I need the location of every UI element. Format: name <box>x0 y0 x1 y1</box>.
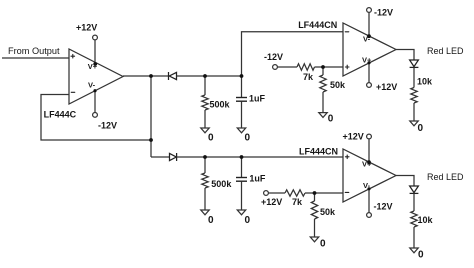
wire R2 to ground <box>204 188 206 210</box>
svg-text:0: 0 <box>208 133 214 144</box>
svg-text:-12V: -12V <box>374 8 393 18</box>
ground under C1 <box>237 128 245 133</box>
svg-text:10k: 10k <box>418 215 434 225</box>
wire top branch to diode D1 <box>151 75 169 77</box>
capacitor C2 plates <box>236 178 247 182</box>
ground under R2 <box>201 210 209 215</box>
terminal +12V circle bottom divider <box>264 191 269 196</box>
terminal +12V circle U2 bottom <box>367 83 372 88</box>
wire R8 to ground <box>413 227 415 248</box>
terminal +12V circle U1 <box>93 35 98 40</box>
svg-text:Red LED: Red LED <box>427 46 464 56</box>
terminal -12V circle U1 <box>93 113 98 118</box>
svg-text:-12V: -12V <box>374 202 393 212</box>
wire bottom branch from bus to diode D2 <box>151 156 170 158</box>
op-amp U1 LF444C triangle <box>69 49 123 104</box>
capacitor C1 1uF top lead <box>241 76 243 97</box>
svg-text:V+: V+ <box>362 160 372 169</box>
resistor R5 10k zigzag <box>411 88 417 104</box>
wire U3 V- to -12V terminal bottom <box>368 189 370 213</box>
resistor R6 7k zigzag <box>285 190 305 196</box>
node U2 V+ pin <box>367 61 370 64</box>
op-amp U3 LF444CN triangle <box>343 149 396 202</box>
resistor R1 500k top lead <box>204 76 206 95</box>
wire R6 to U3 inverting input <box>305 192 343 194</box>
node U2 V- pin <box>367 34 371 38</box>
mark + input U1 <box>71 55 75 57</box>
wire R7 to ground <box>314 219 316 237</box>
node U1 V- pin <box>93 89 96 92</box>
mark + input U2 <box>345 66 349 68</box>
resistor R4 50k top lead <box>322 67 324 75</box>
node U3 V+ pin <box>367 160 371 164</box>
diode D2 pointing right <box>170 153 177 161</box>
node R2 top <box>203 155 207 159</box>
node feedback junction <box>149 138 153 142</box>
resistor R1 500k zigzag <box>202 95 208 110</box>
svg-text:0: 0 <box>245 215 251 226</box>
capacitor C1 bottom lead <box>241 101 243 128</box>
svg-text:0: 0 <box>328 113 334 124</box>
ground under R7 <box>310 237 318 242</box>
diode D1 pointing left <box>169 72 177 80</box>
wire U1 V+ to +12V terminal <box>94 40 96 64</box>
capacitor C1 plates <box>236 98 247 102</box>
resistor R4 50k zigzag <box>320 75 326 92</box>
wire R3 to U2 non-inverting input <box>315 66 344 68</box>
wire LED to R8 <box>413 193 415 211</box>
wire U1 V- to -12V terminal <box>94 91 96 113</box>
wire D1 to cap node <box>177 75 242 77</box>
ground under R4 <box>319 113 327 118</box>
svg-text:50k: 50k <box>330 80 346 90</box>
svg-text:V-: V- <box>88 81 96 90</box>
wire feedback U1 output to inverting input <box>41 95 151 141</box>
resistor R7 50k top lead <box>314 193 316 201</box>
wire LED to R5 <box>413 67 415 87</box>
wire +12V terminal to R6 <box>268 192 285 194</box>
LED D3 red <box>410 60 419 67</box>
svg-text:V-: V- <box>363 35 371 44</box>
terminal -12V circle U3 bottom <box>367 213 372 218</box>
svg-text:From Output: From Output <box>8 46 60 56</box>
wire U3 V+ to +12V terminal top <box>368 139 370 162</box>
resistor R8 10k zigzag <box>411 211 417 227</box>
terminal -12V circle top divider <box>273 65 278 70</box>
ground under R5 <box>410 121 418 126</box>
terminal -12V circle U2 top <box>367 8 372 13</box>
svg-text:LF444CN: LF444CN <box>299 146 338 156</box>
svg-text:50k: 50k <box>320 207 336 217</box>
svg-text:7k: 7k <box>292 197 303 207</box>
wire node up and across to U2 inverting input <box>242 32 344 76</box>
node U3 V- pin <box>367 187 370 190</box>
mark - input U1 <box>71 91 75 93</box>
svg-text:7k: 7k <box>303 72 314 82</box>
ground under R1 <box>201 128 209 133</box>
wire -12V terminal to R3 <box>277 66 297 68</box>
svg-text:500k: 500k <box>210 99 231 109</box>
svg-text:V+: V+ <box>88 62 98 71</box>
resistor R7 50k zigzag <box>311 201 317 219</box>
svg-text:0: 0 <box>418 249 424 260</box>
svg-text:LF444C: LF444C <box>44 110 77 120</box>
ground under R8 <box>410 248 418 253</box>
svg-text:0: 0 <box>208 215 214 226</box>
svg-text:LF444CN: LF444CN <box>298 20 337 30</box>
svg-text:500k: 500k <box>211 179 232 189</box>
mark - input U2 <box>345 31 349 33</box>
op-amp pin labels <box>88 35 372 191</box>
wire U2 V+ to +12V terminal bottom <box>368 63 370 83</box>
wire D2 to U3 non-inverting input <box>177 156 343 158</box>
mark - input U3 <box>345 191 349 193</box>
svg-text:0: 0 <box>320 238 326 249</box>
svg-text:V-: V- <box>363 181 371 190</box>
wire U2 output to LED <box>396 50 414 61</box>
svg-text:+12V: +12V <box>343 132 364 142</box>
op-amp input polarity marks <box>71 32 349 193</box>
ground zero labels <box>208 113 424 260</box>
svg-text:10k: 10k <box>417 77 433 87</box>
svg-text:0: 0 <box>418 123 424 134</box>
wire R4 to ground <box>322 92 324 113</box>
svg-text:-12V: -12V <box>98 121 117 131</box>
svg-text:1uF: 1uF <box>249 174 266 184</box>
op-amp U2 LF444CN triangle <box>343 23 396 76</box>
resistor R2 500k zigzag <box>202 173 208 188</box>
wire R1 to ground <box>204 110 206 128</box>
terminal +12V circle U3 top <box>367 134 372 139</box>
LED D4 red <box>410 186 419 193</box>
resistor R2 500k bottom lead <box>204 157 206 173</box>
svg-text:1uF: 1uF <box>249 94 266 104</box>
wire U2 V- to -12V terminal top <box>368 12 370 36</box>
node R1 top <box>203 74 207 78</box>
svg-text:-12V: -12V <box>264 52 283 62</box>
wire vertical output bus <box>150 76 152 157</box>
node R3-R4 divider top <box>321 65 325 69</box>
node U1 V+ pin <box>93 62 97 66</box>
svg-text:+12V: +12V <box>76 23 97 33</box>
wire R5 to ground <box>413 103 415 121</box>
node C2 top <box>240 155 244 159</box>
svg-text:0: 0 <box>245 133 251 144</box>
svg-text:Red LED: Red LED <box>427 172 464 182</box>
node R6-R7 divider bottom <box>313 191 317 195</box>
ground under C2 <box>237 210 245 215</box>
wire U3 output to LED <box>396 176 414 187</box>
resistor R3 7k zigzag <box>297 64 315 70</box>
mark + input U3 <box>345 156 349 158</box>
capacitor C2 bottom lead <box>241 181 243 210</box>
node C1 top <box>240 74 244 78</box>
svg-text:V+: V+ <box>362 56 372 65</box>
node U1 output junction <box>149 74 153 78</box>
capacitor C2 1uF top lead <box>241 157 243 177</box>
wire input from left <box>2 57 69 59</box>
svg-text:+12V: +12V <box>376 82 397 92</box>
svg-text:+12V: +12V <box>261 197 282 207</box>
wire U1 output <box>123 75 151 77</box>
